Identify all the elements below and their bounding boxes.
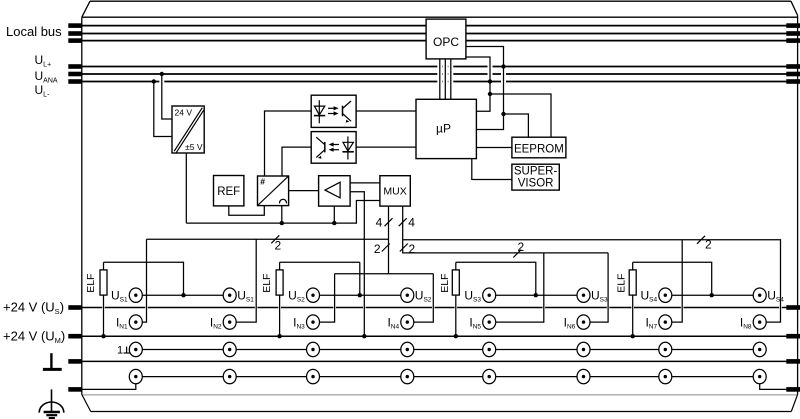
earth row line <box>136 376 760 378</box>
US3 pair line <box>489 294 583 296</box>
optocoupler U2 box <box>311 95 356 127</box>
fuse F3 feed to UM bus <box>455 262 457 336</box>
svg-text:US4: US4 <box>640 288 657 303</box>
fuse F2 loop to US2 line <box>280 261 360 263</box>
wire UANA tap to DC converter <box>162 74 172 119</box>
fuse F1 loop to US1 line <box>104 262 184 295</box>
local bus line 3 <box>82 40 798 42</box>
SUPERVISOR box <box>512 164 559 190</box>
svg-text:+24 V (UM): +24 V (UM) <box>3 328 65 345</box>
group2 pair line <box>335 273 434 275</box>
svg-text:µP: µP <box>436 122 451 136</box>
MUX multiplexer box <box>380 176 410 206</box>
wire UL- tap to DC converter <box>154 82 172 137</box>
svg-text:IN7: IN7 <box>645 315 657 330</box>
REF reference box <box>214 176 244 206</box>
wire IN1 to channel bus1 <box>136 239 147 322</box>
wire A branch to EEPROM <box>504 114 529 137</box>
svg-text:2: 2 <box>518 240 525 254</box>
svg-text:ELF: ELF <box>261 274 273 293</box>
channel bus 1 for group1 <box>147 238 389 240</box>
wire amplifier bottom to analog bus <box>333 206 335 223</box>
uP microprocessor box <box>416 99 476 158</box>
wire REF to ADC <box>229 206 264 215</box>
svg-text:4: 4 <box>408 216 415 230</box>
svg-text:SUPER-: SUPER- <box>514 166 558 178</box>
+24V UM rail <box>82 335 798 337</box>
wire B OPC right to uP via UL- tap <box>466 57 490 111</box>
svg-text:2: 2 <box>409 242 416 256</box>
svg-text:OPC: OPC <box>433 35 459 49</box>
wire uP to SUPERVISOR <box>472 159 512 180</box>
module outline top edge <box>82 16 798 18</box>
svg-text:EEPROM: EEPROM <box>514 143 564 155</box>
fuse F2 feed to UM bus <box>279 262 281 336</box>
module outline top lid <box>90 0 791 2</box>
svg-text:+24 V (US): +24 V (US) <box>3 300 64 317</box>
svg-text:IN8: IN8 <box>740 315 752 330</box>
fuse F4 feed to UM bus <box>632 262 634 336</box>
svg-text:REF: REF <box>217 186 240 198</box>
optocoupler U2 LED symbol <box>314 100 325 123</box>
fuse F4 ELF <box>629 270 636 295</box>
wire OPC to uP bus lines <box>439 59 441 99</box>
fuse F1 feed to UM bus <box>103 262 105 336</box>
wire amplifier to MUX <box>350 182 380 184</box>
svg-text:2: 2 <box>374 242 381 256</box>
wire optocoupler1 to uP <box>356 110 416 112</box>
svg-text:US3: US3 <box>591 288 608 303</box>
optocoupler U2 phototransistor <box>342 106 344 117</box>
wire DC converter down to analog supply bus <box>185 153 187 223</box>
svg-text:US1: US1 <box>237 288 254 303</box>
wire MUX left output down to group2 pair <box>388 206 390 274</box>
wire A OPC right to uP via UL+ tap <box>466 47 504 130</box>
module outline right edge <box>797 15 799 394</box>
DC converter box <box>172 106 204 153</box>
optocoupler U3 phototransistor <box>324 142 326 153</box>
svg-text:UANA: UANA <box>35 69 58 85</box>
analog supply bus to MUX <box>186 201 380 224</box>
fuse F2 ELF <box>276 270 283 295</box>
svg-text:IN1: IN1 <box>116 315 128 330</box>
US1 pair line <box>136 294 230 296</box>
earth rail left segment <box>82 377 136 390</box>
wire IN4 to group2 pair <box>407 274 433 322</box>
junction dots <box>160 72 164 76</box>
US2 pair line <box>313 294 407 296</box>
svg-text:US3: US3 <box>464 288 481 303</box>
wire IN3 to group2 pair <box>313 274 335 322</box>
svg-text:ELF: ELF <box>439 274 451 293</box>
wire IN5 to group3 pair <box>489 254 544 323</box>
supply left ticks <box>68 64 82 69</box>
fuse F3 loop to US3 line <box>456 262 536 295</box>
local bus line 1 <box>82 25 798 27</box>
right ticks supply <box>786 64 800 69</box>
functional earth rail <box>82 360 798 362</box>
earth terminal circles row <box>129 369 142 383</box>
optocoupler U2 light arrows <box>328 107 334 109</box>
bus width slash MUX left 4 <box>385 218 393 226</box>
bus width slash MUX right 2 <box>400 244 408 252</box>
EEPROM box <box>512 137 566 158</box>
wire ADC to amplifier <box>289 190 319 192</box>
wire optocoupler2 to uP <box>356 146 416 148</box>
svg-text:IN6: IN6 <box>564 315 576 330</box>
protective earth symbol <box>51 389 53 411</box>
IN terminal circles row <box>129 315 142 329</box>
shield row line <box>136 349 760 351</box>
wire IN7 to channel bus2 <box>665 240 682 322</box>
optocoupler U3 box <box>311 132 356 164</box>
UL- supply line <box>82 81 798 83</box>
svg-text:IN4: IN4 <box>387 315 399 330</box>
module outline bottom-right bevel <box>791 394 797 411</box>
bus width slash group1 <box>271 235 279 243</box>
svg-text:ELF: ELF <box>85 274 97 293</box>
module outline bottom front edge <box>82 394 798 396</box>
svg-text:UL+: UL+ <box>35 53 52 69</box>
wire ADC bottom to analog bus <box>281 206 283 223</box>
svg-text:±5 V: ±5 V <box>185 142 203 152</box>
functional earth symbol <box>50 353 52 369</box>
module outline bottom-left bevel <box>82 394 91 411</box>
wire B branch to EEPROM <box>490 94 551 137</box>
UL+ supply line <box>82 66 798 68</box>
bus width slash group3 <box>513 250 521 258</box>
wire optocoupler2 to ADC <box>282 147 311 176</box>
svg-text:#: # <box>260 176 265 186</box>
right ticks local bus <box>786 23 800 28</box>
module outline top-left bevel <box>82 1 90 17</box>
module outline bottom base edge <box>91 411 792 413</box>
UANA supply line <box>82 73 798 75</box>
bus width slash group4 <box>697 236 705 244</box>
US terminal circles row <box>129 288 142 302</box>
svg-text:24 V: 24 V <box>175 108 193 118</box>
ADC analog-digital converter box <box>258 176 289 206</box>
svg-text:IN3: IN3 <box>293 315 305 330</box>
svg-text:US2: US2 <box>288 288 305 303</box>
module outline left edge <box>81 17 83 394</box>
svg-text:ELF: ELF <box>616 274 628 293</box>
amplifier box <box>319 176 351 206</box>
wire amplifier reference to UM bus <box>350 192 364 337</box>
shield terminal circles row <box>129 342 142 356</box>
channel bus 2 for group4 <box>403 240 781 322</box>
wire IN2 to channel bus1 <box>230 239 257 322</box>
svg-text:4: 4 <box>376 216 383 230</box>
fuse F3 ELF <box>452 270 459 295</box>
wire optocoupler1 to ADC <box>265 111 312 176</box>
bottom left ticks <box>68 305 82 310</box>
svg-text:2: 2 <box>705 238 712 252</box>
svg-text:US4: US4 <box>767 288 784 303</box>
OPC interface box <box>426 19 466 59</box>
wire MUX right output down then right to group3 pair <box>403 206 608 253</box>
optocoupler U3 LED symbol <box>347 136 349 159</box>
fuse F4 loop to US4 line <box>633 262 712 295</box>
module outline top-right bevel <box>791 1 798 15</box>
svg-text:VISOR: VISOR <box>518 178 554 190</box>
bottom right ticks <box>786 305 800 310</box>
US4 pair line <box>665 294 759 296</box>
svg-text:Local bus: Local bus <box>6 24 62 39</box>
svg-text:UL-: UL- <box>35 83 51 99</box>
svg-text:MUX: MUX <box>383 186 406 198</box>
earth rail right segment <box>760 377 798 390</box>
svg-text:2: 2 <box>275 239 282 253</box>
optocoupler U3 light arrows <box>333 144 339 146</box>
local bus line 2 <box>82 33 798 35</box>
bus width slash MUX left 2 <box>382 244 390 252</box>
svg-text:US2: US2 <box>415 288 432 303</box>
local bus left ticks <box>68 23 82 28</box>
svg-text:US1: US1 <box>111 288 128 303</box>
+24V US rail <box>82 307 798 309</box>
svg-text:IN2: IN2 <box>210 315 222 330</box>
svg-text:IN5: IN5 <box>469 315 481 330</box>
wire uP to EEPROM <box>476 147 512 149</box>
bus width slash MUX right 4 <box>399 218 407 226</box>
svg-text:1: 1 <box>117 345 123 357</box>
fuse F1 ELF <box>100 270 107 295</box>
